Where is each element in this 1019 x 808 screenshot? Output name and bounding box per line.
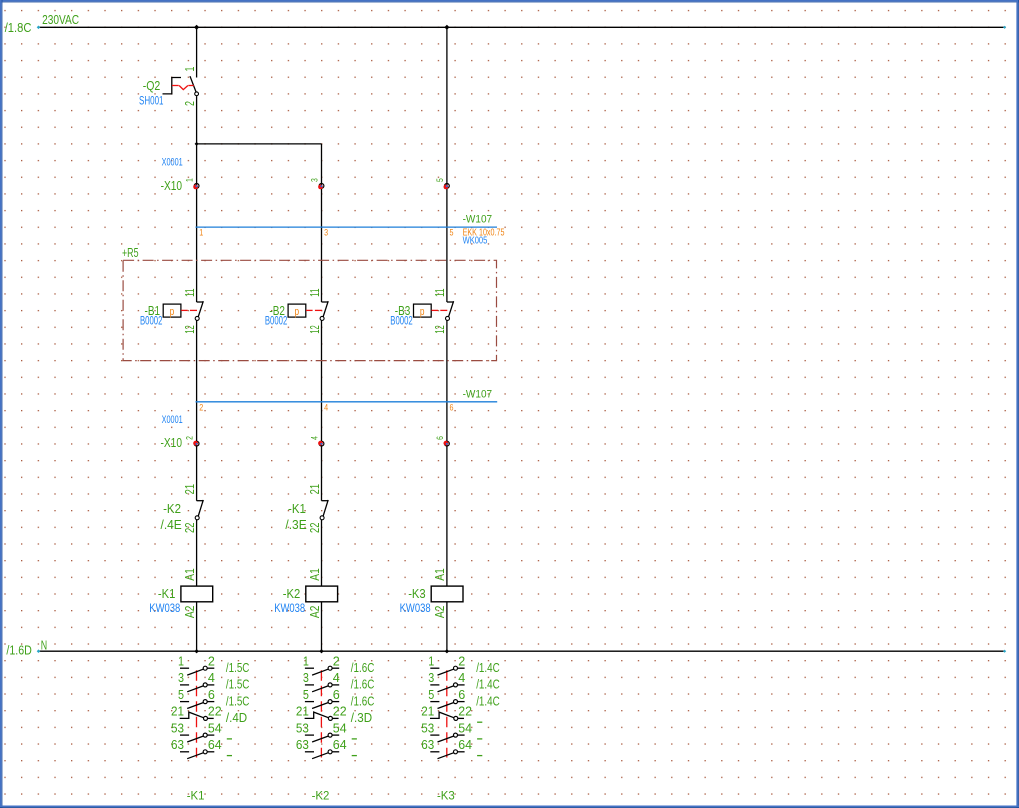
svg-text:N: N: [41, 638, 47, 652]
svg-text:64: 64: [333, 737, 347, 752]
svg-text:/.3E: /.3E: [285, 518, 306, 532]
svg-text:3: 3: [324, 228, 328, 238]
svg-text:12: 12: [432, 325, 447, 334]
svg-text:/1.8C: /1.8C: [5, 21, 32, 35]
svg-text:53: 53: [421, 720, 434, 735]
svg-text:2: 2: [458, 653, 465, 668]
svg-text:4: 4: [333, 670, 340, 685]
svg-text:64: 64: [458, 737, 472, 752]
svg-text:-K2: -K2: [283, 587, 301, 601]
svg-text:6: 6: [458, 687, 465, 702]
svg-text:2: 2: [199, 403, 203, 413]
svg-text:11: 11: [432, 288, 447, 297]
svg-text:12: 12: [182, 325, 197, 334]
svg-text:53: 53: [296, 720, 309, 735]
svg-text:-K3: -K3: [437, 788, 455, 802]
svg-text:-K2: -K2: [163, 502, 181, 516]
svg-text:63: 63: [296, 737, 309, 752]
svg-text:/1.6C: /1.6C: [351, 660, 375, 675]
svg-text:6: 6: [208, 687, 215, 702]
svg-text:A2: A2: [432, 606, 447, 619]
svg-text:-X10: -X10: [161, 436, 183, 450]
svg-text:-K2: -K2: [312, 788, 330, 802]
svg-text:5: 5: [428, 687, 434, 702]
svg-text:1: 1: [303, 653, 309, 668]
svg-text:A1: A1: [182, 568, 197, 581]
svg-text:A1: A1: [307, 568, 322, 581]
svg-text:-Q2: -Q2: [143, 79, 161, 93]
svg-text:2: 2: [333, 653, 340, 668]
svg-text:4: 4: [324, 403, 328, 413]
svg-text:B0002: B0002: [265, 314, 288, 328]
svg-text:2: 2: [208, 653, 215, 668]
svg-text:54: 54: [333, 720, 347, 735]
svg-text:/1.6C: /1.6C: [351, 693, 375, 708]
svg-text:64: 64: [208, 737, 222, 752]
svg-text:22: 22: [333, 704, 347, 719]
svg-text:A2: A2: [182, 606, 197, 619]
svg-text:22: 22: [182, 523, 197, 534]
svg-text:-K3: -K3: [408, 587, 426, 601]
svg-text:p: p: [295, 306, 300, 318]
svg-text:/1.5C: /1.5C: [226, 693, 250, 708]
svg-text:KW038: KW038: [149, 601, 180, 615]
svg-text:/1.4C: /1.4C: [476, 693, 500, 708]
svg-text:/.3D: /.3D: [351, 710, 372, 725]
svg-text:X0001: X0001: [162, 414, 183, 426]
svg-text:A1: A1: [432, 568, 447, 581]
svg-text:22: 22: [307, 523, 322, 534]
svg-text:-K1: -K1: [187, 788, 205, 802]
svg-text:230VAC: 230VAC: [42, 13, 79, 27]
svg-text:1: 1: [182, 67, 197, 72]
svg-text:54: 54: [208, 720, 222, 735]
svg-text:p: p: [170, 306, 175, 318]
svg-text:-X10: -X10: [161, 179, 183, 193]
svg-text:6: 6: [333, 687, 340, 702]
svg-text:3: 3: [428, 670, 434, 685]
svg-text:-W107: -W107: [463, 214, 493, 226]
svg-text:5: 5: [450, 228, 454, 238]
svg-text:/1.5C: /1.5C: [226, 660, 250, 675]
svg-text:KW038: KW038: [400, 601, 431, 615]
svg-text:1: 1: [199, 228, 203, 238]
svg-text:21: 21: [296, 704, 309, 719]
svg-text:/1.6D: /1.6D: [6, 643, 32, 657]
svg-text:3: 3: [310, 178, 321, 182]
svg-text:WK005: WK005: [463, 234, 488, 246]
svg-text:/1.6C: /1.6C: [351, 677, 375, 692]
svg-text:5: 5: [178, 687, 184, 702]
svg-text:-W107: -W107: [463, 389, 493, 401]
svg-text:3: 3: [303, 670, 309, 685]
svg-text:X0001: X0001: [162, 156, 183, 168]
svg-text:5: 5: [303, 687, 309, 702]
svg-text:-K1: -K1: [158, 587, 176, 601]
svg-text:1: 1: [185, 178, 196, 182]
svg-text:21: 21: [171, 704, 184, 719]
svg-text:+R5: +R5: [122, 246, 139, 260]
svg-text:3: 3: [178, 670, 184, 685]
svg-text:22: 22: [208, 704, 222, 719]
svg-text:4: 4: [208, 670, 215, 685]
svg-text:p: p: [420, 306, 425, 318]
svg-text:A2: A2: [307, 606, 322, 619]
svg-text:B0002: B0002: [140, 314, 163, 328]
svg-text:/.4E: /.4E: [161, 518, 182, 532]
svg-text:2: 2: [182, 101, 197, 106]
svg-text:54: 54: [458, 720, 472, 735]
svg-text:/.4D: /.4D: [226, 710, 247, 725]
svg-text:6: 6: [435, 436, 446, 440]
svg-text:22: 22: [458, 704, 472, 719]
svg-text:11: 11: [307, 288, 322, 297]
svg-text:1: 1: [178, 653, 184, 668]
svg-text:/1.4C: /1.4C: [476, 677, 500, 692]
svg-text:SH001: SH001: [139, 94, 164, 108]
svg-text:63: 63: [171, 737, 184, 752]
svg-text:53: 53: [171, 720, 184, 735]
svg-text:12: 12: [307, 325, 322, 334]
svg-text:2: 2: [185, 436, 196, 440]
svg-text:KW038: KW038: [274, 601, 305, 615]
svg-text:/1.4C: /1.4C: [476, 660, 500, 675]
svg-text:4: 4: [458, 670, 465, 685]
svg-text:5: 5: [435, 178, 446, 182]
svg-text:/1.5C: /1.5C: [226, 677, 250, 692]
svg-text:11: 11: [182, 288, 197, 297]
svg-text:21: 21: [307, 484, 322, 495]
svg-text:21: 21: [421, 704, 434, 719]
svg-text:6: 6: [450, 403, 454, 413]
svg-text:63: 63: [421, 737, 434, 752]
svg-text:-K1: -K1: [288, 502, 306, 516]
svg-text:B0002: B0002: [390, 314, 413, 328]
svg-text:21: 21: [182, 484, 197, 495]
svg-text:1: 1: [428, 653, 434, 668]
svg-text:4: 4: [310, 436, 321, 440]
